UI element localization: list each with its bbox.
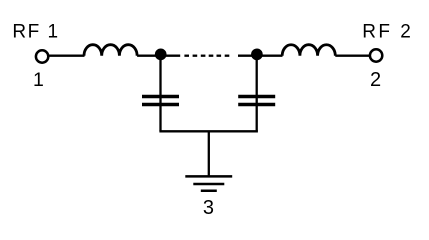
port label RF 2 bbox=[362, 21, 413, 42]
pin 2 label bbox=[370, 69, 381, 91]
terminal 1 (open circle) bbox=[36, 50, 48, 62]
svg-text:2: 2 bbox=[370, 69, 381, 91]
node B (junction dot) bbox=[251, 49, 263, 61]
wire node A stub (solid) bbox=[161, 55, 181, 57]
pin 1 label bbox=[33, 69, 44, 91]
capacitor C2 bbox=[238, 97, 275, 105]
wire bottom bus bbox=[159, 130, 258, 132]
wire dashed between node A and node B bbox=[184, 55, 229, 57]
terminal 2 (open circle) bbox=[370, 49, 382, 61]
capacitor C1 bbox=[142, 97, 179, 105]
svg-text:RF 1: RF 1 bbox=[12, 21, 59, 42]
inductor L2 bbox=[282, 45, 335, 56]
wire node B stub (solid) bbox=[238, 55, 257, 57]
wire node B to L2 bbox=[257, 55, 283, 57]
svg-text:RF 2: RF 2 bbox=[362, 21, 413, 42]
inductor L1 bbox=[84, 45, 137, 56]
wire terminal1 to L1 bbox=[49, 55, 85, 57]
ground bbox=[185, 176, 232, 190]
svg-text:3: 3 bbox=[203, 197, 214, 219]
wire node A down through C1 to bus bbox=[159, 54, 161, 131]
wire L1 to node A bbox=[137, 55, 161, 57]
wire bus to ground bbox=[208, 131, 210, 176]
wire node B down through C2 to bus bbox=[256, 54, 258, 131]
pin 3 label bbox=[203, 197, 214, 219]
node A (junction dot) bbox=[155, 49, 167, 61]
svg-text:1: 1 bbox=[33, 69, 44, 91]
port label RF 1 bbox=[12, 21, 59, 42]
wire L2 to terminal 2 bbox=[335, 55, 370, 57]
